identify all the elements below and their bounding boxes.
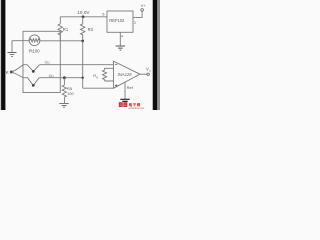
pin plus <box>115 84 118 87</box>
wire Cu upper to IN- <box>40 64 114 66</box>
svg-text:4: 4 <box>121 35 123 39</box>
wire pin2 to V+ <box>133 11 142 18</box>
svg-text:INA128: INA128 <box>118 72 133 77</box>
svg-text:100: 100 <box>67 91 74 96</box>
wire 10.0V rail <box>60 16 107 18</box>
watermark logo blocks <box>119 102 144 110</box>
terminal Vo <box>147 73 149 75</box>
REF102 U2 <box>107 11 133 32</box>
resistor R5 <box>62 78 66 104</box>
wire thermocouple lower lead <box>11 72 23 78</box>
svg-text:2: 2 <box>134 21 136 25</box>
wire output <box>140 73 147 75</box>
svg-text:K: K <box>6 70 9 75</box>
svg-text:Pt100: Pt100 <box>29 49 41 54</box>
svg-text:REF102: REF102 <box>109 18 125 23</box>
node R3 Pt100 <box>81 40 84 43</box>
node J2 cold junction lower <box>23 78 39 86</box>
svg-text:10.0V: 10.0V <box>77 10 90 15</box>
svg-text:R3: R3 <box>88 27 94 32</box>
RTD Pt100 <box>29 35 40 46</box>
thermocouple K junction <box>10 71 13 74</box>
ground thermocouple shield <box>11 41 13 53</box>
svg-text:www.dzsc.com: www.dzsc.com <box>128 107 144 110</box>
node rail junction <box>82 15 85 18</box>
op-amp U1 INA128 <box>114 61 141 88</box>
svg-text:Cu: Cu <box>45 61 50 65</box>
scan bar right <box>151 0 154 110</box>
svg-text:Cu: Cu <box>49 74 54 78</box>
svg-text:Ref: Ref <box>127 85 134 90</box>
resistor Rg <box>103 68 114 81</box>
resistor R1 <box>58 17 62 41</box>
wire Cu lower <box>39 77 82 79</box>
pin minus <box>115 63 117 65</box>
ground REF102 <box>119 32 121 46</box>
svg-text:V+: V+ <box>141 3 147 8</box>
isothermal block box <box>23 31 60 92</box>
node lower Cu junction <box>82 77 84 79</box>
node R5 tap <box>63 76 66 79</box>
wire thermocouple upper lead <box>11 65 23 72</box>
wire Ref pin <box>124 82 126 99</box>
ground R5 <box>59 103 68 107</box>
resistor R3 <box>81 17 85 41</box>
ground Ref <box>120 99 129 103</box>
wire Pt100 left lead <box>12 40 29 42</box>
wire Pt100 right lead to node <box>40 40 83 42</box>
node J1 cold junction upper <box>23 65 40 72</box>
svg-text:R1: R1 <box>63 27 69 32</box>
terminal V+ <box>141 9 144 12</box>
scan bar left <box>0 0 1 110</box>
wire node down to IN+ path <box>83 41 114 88</box>
svg-text:6: 6 <box>102 13 104 17</box>
